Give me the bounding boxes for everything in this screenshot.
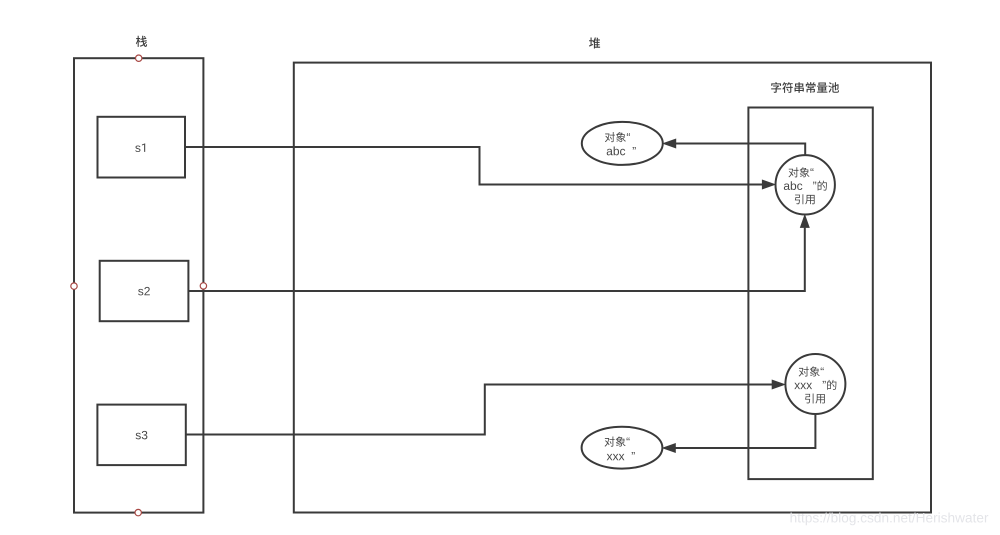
arrowhead into abc reference circle (up) [801, 215, 810, 227]
wire s1 -> abc reference circle [185, 147, 762, 185]
arrowhead into abc object ellipse (left) [664, 139, 676, 148]
circle reference to object "xxx" 对象“xxx”的引用 [785, 354, 845, 414]
label 字符串常量池 (string constant pool) [771, 82, 839, 93]
wire xxx reference circle bottom -> xxx object ellipse [675, 414, 815, 448]
stack container box 栈 [74, 58, 203, 512]
connection point right of stack box [200, 283, 206, 289]
wire abc reference circle top -> abc object ellipse [676, 144, 805, 156]
box s2 [100, 261, 189, 321]
label 栈 (stack) [136, 36, 147, 47]
arrowhead into xxx reference circle (right) [772, 380, 784, 389]
heap container box 堆 [294, 63, 931, 513]
arrowhead into abc reference circle (right) [762, 180, 774, 189]
arrowhead into xxx object ellipse (left) [663, 444, 675, 453]
label 堆 (heap) [589, 37, 600, 48]
connection point left of stack box [71, 283, 77, 289]
ellipse object "xxx" 对象“xxx” [582, 427, 663, 469]
box s3 [97, 405, 185, 466]
connection point bottom of stack box [135, 509, 141, 515]
ellipse object "abc" 对象“abc” [582, 122, 663, 165]
box s1 [98, 117, 186, 178]
string constant pool box 字符串常量池 [748, 108, 872, 480]
wire s2 -> abc reference circle bottom [188, 228, 804, 291]
watermark text blog.csdn.net/Herishwater [791, 513, 989, 526]
circle reference to object "abc" 对象“abc”的引用 [776, 155, 835, 214]
connection point top of stack box [136, 55, 142, 61]
wire s3 -> xxx reference circle [186, 385, 772, 435]
